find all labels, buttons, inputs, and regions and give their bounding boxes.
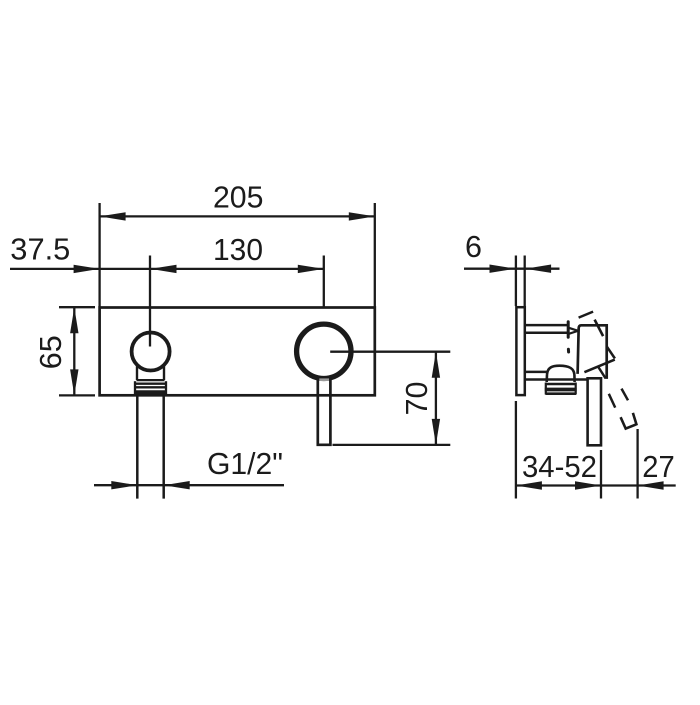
- dim 205 arrow right: [349, 212, 375, 220]
- dim 70 line: [435, 352, 437, 445]
- dim G1/2 arrow right (points left): [164, 481, 190, 489]
- dim 34-52 extension left (wall line): [515, 401, 517, 499]
- rotated lever dash right 1: [622, 389, 629, 401]
- dim 65 line: [73, 307, 75, 395]
- dim 6 arrow right (points left): [525, 265, 551, 273]
- dim 205 arrow left: [100, 212, 126, 220]
- dim 65 arrow bottom: [70, 369, 78, 395]
- dim 130 arrow left: [151, 265, 177, 273]
- dim 65 extension bottom: [59, 394, 95, 396]
- rotated lever dash crossing right edge: [607, 347, 615, 359]
- dim 37.5 / 130 shared line: [10, 268, 324, 270]
- dim 205 extension line left: [98, 203, 100, 307]
- spout circle: [132, 333, 170, 371]
- cartridge housing (side): [578, 325, 607, 379]
- dim G1/2 line: [94, 484, 284, 486]
- dim 27 tail: [638, 484, 676, 486]
- svg-text:205: 205: [213, 181, 264, 215]
- dim 27 extension right: [636, 429, 638, 499]
- wall plate (front): [100, 308, 375, 396]
- svg-text:70: 70: [400, 382, 434, 416]
- dim 34-52 extension right (lever edge): [600, 450, 602, 499]
- svg-text:G1/2": G1/2": [207, 447, 283, 481]
- dim 65 extension top: [59, 306, 95, 308]
- dim 70 arrow bottom: [432, 419, 440, 445]
- spout aerator (front): [135, 367, 167, 395]
- dim G1/2 arrow left (points right): [111, 481, 137, 489]
- dim 6 extension lines above plate: [515, 256, 517, 307]
- handle circle: [297, 324, 351, 378]
- lever rotated position: solid diagonal bottom edge: [584, 360, 614, 373]
- dim 34-52 line: [516, 484, 638, 486]
- stem flange tick: [567, 322, 570, 337]
- stem taper wedge: [569, 328, 578, 331]
- svg-text:6: 6: [465, 230, 482, 264]
- svg-text:37.5: 37.5: [10, 233, 70, 267]
- handle lever (front): [318, 377, 331, 445]
- spout centerline: [149, 256, 151, 347]
- rotated escutcheon dashed top edge: [579, 312, 594, 318]
- dim 70 arrow top: [432, 352, 440, 378]
- supply pipe G1/2 (front): [136, 395, 139, 498]
- rotated lever dash left 1: [609, 394, 615, 408]
- handle centerline: [323, 256, 325, 309]
- dim 205 line: [100, 215, 375, 217]
- valve stem (side): [525, 324, 568, 327]
- dim 6 arrow left (points right): [490, 265, 516, 273]
- svg-text:65: 65: [34, 335, 68, 369]
- spout pipe (side): [525, 371, 548, 374]
- lever rotated position: solid diagonal at top: [595, 320, 604, 337]
- svg-text:34-52: 34-52: [522, 450, 597, 484]
- dim 34-52 arrow right: [575, 481, 601, 489]
- svg-text:130: 130: [213, 233, 263, 267]
- svg-text:27: 27: [642, 450, 675, 484]
- handle lever (side, down position): [588, 378, 601, 445]
- dim 6 line: [464, 268, 560, 270]
- dim 34-52 arrow left: [516, 481, 542, 489]
- rotated lever end cap: [621, 413, 637, 429]
- wall plate (side): [516, 307, 524, 395]
- spout bell dome (side): [547, 366, 575, 382]
- dim 27 arrow (points left): [638, 481, 664, 489]
- dim 70 extension top (from handle circle centre): [330, 351, 450, 353]
- dim 65 arrow top: [70, 307, 78, 333]
- rotated lever inner edge solid segment: [598, 367, 606, 379]
- small dot below tick: [567, 349, 570, 352]
- dim 37.5 arrow (points right at plate edge): [74, 265, 100, 273]
- dim 205 extension line right: [374, 203, 376, 307]
- dim 70 extension bottom (from lever end): [333, 444, 451, 446]
- dim 130 arrow right: [298, 265, 324, 273]
- lever junction notch: [319, 378, 329, 381]
- spout aerator rings (side): [545, 383, 577, 395]
